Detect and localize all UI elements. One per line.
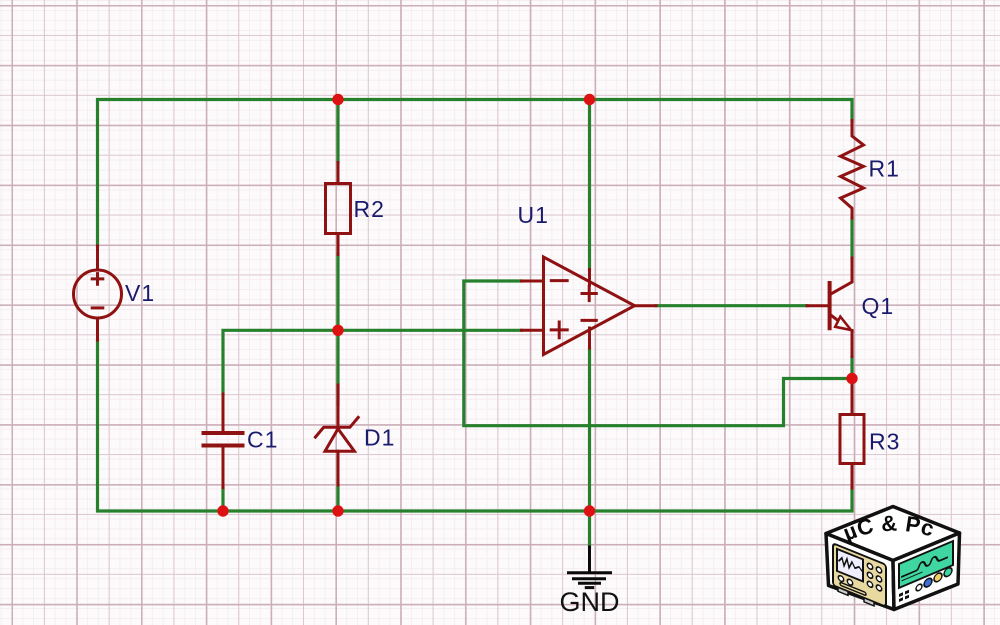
logo right face [893, 533, 960, 610]
wire Q1 emitter to R3 node [850, 357, 853, 380]
wire R2 bottom to D1 top [336, 255, 339, 405]
ground symbol [569, 547, 611, 588]
voltage source V1 [74, 246, 122, 340]
op-amp U1 [522, 257, 657, 355]
svg-text:GND: GND [560, 587, 620, 617]
wire U1 V- down to ground rail and GND symbol [588, 348, 591, 547]
svg-text:C1: C1 [247, 427, 278, 453]
svg-text:R3: R3 [869, 429, 900, 455]
junction dot bottom D1 [332, 505, 343, 516]
resistor R2 [326, 163, 351, 255]
svg-text:Q1: Q1 [862, 293, 895, 319]
junction dot node R2/D1 [332, 325, 343, 336]
logo title text [845, 531, 943, 542]
wire C1 to ground rail [221, 488, 224, 512]
in+ mark [551, 322, 567, 338]
wire feedback U1 IN- to emitter node [464, 281, 852, 426]
junction dot top U1 [584, 94, 595, 105]
transistor Q1 [807, 258, 852, 357]
svg-text:D1: D1 [364, 425, 395, 451]
svg-text:R1: R1 [869, 156, 900, 182]
wire VCC drop to U1 V+ [588, 100, 591, 271]
junction dot emitter/R3 [846, 373, 857, 384]
junction dot bottom C1 [217, 505, 228, 516]
logo left face [826, 534, 894, 610]
logo top face [826, 507, 960, 561]
resistor R3 [840, 379, 864, 488]
junction dot bottom U1 [584, 505, 595, 516]
V+ mark [582, 286, 596, 300]
resistor R1 (zigzag) [841, 121, 864, 219]
in- mark [551, 279, 567, 282]
V- mark [582, 319, 596, 322]
capacitor C1 [204, 394, 243, 488]
wire U1 output to Q1 base [656, 304, 807, 307]
logo analyzer on right face [899, 541, 953, 602]
junction dot top R2 [332, 94, 343, 105]
wire VCC drop to R2 [336, 100, 339, 163]
logo cube [826, 507, 960, 611]
wire VCC rail top [98, 100, 853, 247]
wire D1 to ground rail [336, 485, 339, 511]
svg-text:U1: U1 [518, 202, 549, 228]
svg-text:R2: R2 [354, 196, 385, 222]
logo oscilloscope on left face [833, 543, 886, 610]
svg-text:V1: V1 [125, 280, 155, 306]
wire node y330: C1/R2/D1 to U1 IN+ [223, 330, 522, 394]
wire ground rail bottom [98, 340, 853, 511]
wire R1 bottom to Q1 collector [850, 218, 853, 258]
zener diode D1 [315, 385, 358, 485]
